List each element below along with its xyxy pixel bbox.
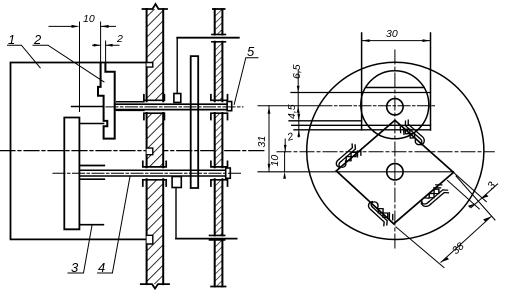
dimension line 2 [93, 44, 120, 46]
svg-text:2: 2 [116, 33, 123, 45]
svg-text:5: 5 [247, 44, 255, 59]
hook rod from top plate to nut [176, 38, 178, 94]
svg-text:4: 4 [98, 260, 105, 275]
spring clip lower-left [364, 198, 395, 226]
dim 30 line [362, 40, 431, 42]
left wall section (hatched) [147, 9, 164, 284]
dim 2 arrows [94, 44, 113, 47]
callout 2 leader [33, 45, 104, 82]
dim 4.5 arrows (outside) [297, 114, 300, 137]
washer lower-right (bar, below bolt5) [211, 113, 228, 119]
upper bolt hole [387, 99, 403, 115]
dim 10 line [284, 152, 286, 172]
top suspension plate [177, 37, 239, 39]
extension line at x=105.6 [105, 41, 107, 63]
callout 4 leader [98, 177, 130, 274]
svg-text:3: 3 [71, 260, 79, 275]
plate vertical edge left [361, 33, 363, 130]
wall groove notch top (part1 top edge enters wall) [147, 63, 153, 68]
svg-text:2: 2 [33, 32, 42, 47]
dim 38 extension lines [396, 176, 495, 268]
spring clip upper-left [332, 143, 364, 171]
part 1 cabinet body outline [11, 63, 153, 240]
wall bottom break line [141, 284, 169, 288]
dim 10 arrows (outside) [283, 172, 286, 179]
part 3 bottom foot line [79, 224, 103, 226]
part 2 hook plate stepped profile [98, 63, 115, 139]
dim 3 arrows (outside) [468, 194, 489, 207]
bolt 5 axis [106, 106, 243, 108]
bolt 4 axis [53, 172, 242, 174]
big circle (cover plate) [307, 62, 484, 239]
washer lower-right (bar, below bolt4) [211, 180, 228, 186]
washer upper-right (bar, above bolt4) [211, 161, 228, 167]
dim 4.5 line [298, 113, 300, 137]
bolt 5 shaft [115, 104, 227, 109]
svg-text:4,5: 4,5 [286, 104, 298, 119]
dim 6.5 arrows (outside) [297, 86, 300, 113]
dim 31 arrows [268, 106, 271, 172]
lower bolt hole [387, 164, 403, 180]
dim 38 line [441, 216, 491, 262]
extension line at x=79.5 [79, 22, 81, 112]
bar cap above top plate [212, 34, 226, 36]
upper hole axis extension [258, 105, 320, 107]
callout 1 leader [8, 45, 41, 68]
bar caps at lower bracket plate [210, 235, 225, 240]
hanging strip between walls [191, 56, 199, 188]
main horizontal axis (centerline) [0, 150, 147, 152]
chord line y=87.5 [366, 87, 425, 89]
lower hook rod from nut to bracket plate [175, 188, 177, 239]
extension line at x=100.6 [100, 22, 102, 63]
svg-text:10: 10 [83, 13, 95, 25]
spring clip lower-right [418, 182, 450, 210]
callout 3 leader [68, 225, 92, 273]
dimension line 10 [49, 25, 116, 27]
horizontal diagonal of square / extension y=171.8 [258, 171, 454, 173]
bolt 4 sleeve [79, 166, 104, 180]
square plate rotated (diamond) [336, 120, 453, 224]
svg-text:1: 1 [8, 32, 15, 47]
bolt 5 thin threaded tip [72, 106, 104, 108]
callout 5 leader [234, 58, 258, 105]
bar cap below top plate [212, 41, 226, 43]
dim 3 line [471, 184, 498, 208]
feature line y=120.8 [289, 120, 362, 122]
dim 38 arrows [441, 216, 491, 262]
svg-text:10: 10 [269, 155, 281, 167]
bolt 4 shaft [79, 170, 225, 176]
small circle (upper boss) [361, 71, 429, 139]
bar top cap [213, 8, 225, 10]
wall top break line [143, 4, 168, 9]
washer lower-left (left wall, below bolt5) [144, 113, 165, 119]
feature line y=125.3 [292, 124, 431, 126]
dim 2 arrows (outside) [284, 145, 287, 152]
square nut on upper bolt [174, 94, 181, 103]
svg-text:6,5: 6,5 [291, 64, 303, 79]
washer upper-right (bar, above bolt5) [211, 95, 228, 101]
main horizontal axis of circle [277, 151, 494, 153]
wall groove notch bottom [147, 235, 153, 244]
svg-text:31: 31 [256, 136, 268, 148]
lower bracket plate [176, 238, 237, 240]
wall groove notch middle [147, 148, 153, 155]
dim 30 extension lines [362, 33, 431, 41]
dim 31 line [268, 106, 270, 172]
washer upper-left (left wall, above bolt4) [143, 161, 166, 167]
vertical axis of view [394, 50, 396, 249]
dim 2 line [284, 139, 286, 152]
washer upper-left (left wall, above bolt5) [144, 95, 165, 101]
spring clip upper-right [398, 119, 429, 148]
dim 10 arrows [72, 25, 109, 28]
dim 30 arrows [362, 39, 431, 42]
washer lower-left (left wall, below bolt4) [143, 180, 166, 186]
dim 3 extension lines [448, 172, 487, 209]
bolt 4 end nut [226, 168, 231, 178]
dim 6.5 line [297, 70, 299, 112]
feature line y=92.5 [291, 92, 431, 94]
part 3 lower bracket plate [64, 118, 79, 230]
bolt 5 end nut [227, 102, 232, 111]
part 3 step line to hook [79, 123, 103, 125]
square nut below lower bolt [172, 177, 181, 188]
right mounting bar section (hatched) [215, 9, 223, 287]
svg-text:30: 30 [386, 28, 398, 40]
plate vertical edge right [430, 33, 432, 130]
bolt 5 sleeve lines [117, 102, 144, 111]
bar bottom cap [211, 286, 225, 288]
feature line y=129.8 [294, 129, 431, 131]
